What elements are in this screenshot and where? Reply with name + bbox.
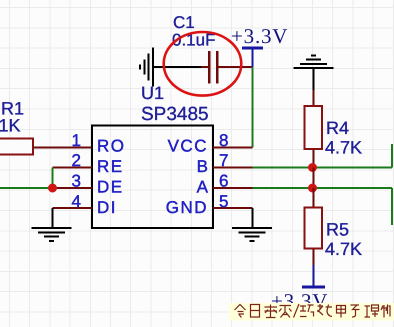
svg-text:6: 6 [219,172,228,191]
wire DI to ground [52,208,54,228]
ground (below pin 5) [232,228,272,241]
wire GND pin to ground [252,208,254,228]
ground (left of C1, pointing left) [140,48,201,87]
svg-text:VCC: VCC [168,137,208,156]
svg-text:2: 2 [72,151,81,170]
pin 2 RE [53,151,124,176]
wire B (green) [253,167,393,169]
svg-text:A: A [197,178,209,197]
watermark strip [229,303,394,321]
svg-text:B: B [197,157,208,176]
pin 7 B [197,151,253,176]
ground (below DI) [32,228,72,241]
svg-text:8: 8 [219,131,228,150]
svg-text:1K: 1K [0,116,21,136]
svg-text:4.7K: 4.7K [325,138,362,158]
junction (B / R4) [308,163,317,172]
wire R1 to pin1 [33,147,92,149]
junction (A / R5) [308,184,317,193]
svg-text:4.7K: 4.7K [325,239,362,259]
svg-text:3: 3 [72,172,81,191]
wire VCC vertical [252,67,254,148]
svg-text:C1: C1 [173,13,195,32]
annotation ellipse around C1 [164,32,242,96]
wire DE input (green) [0,187,53,189]
pin 1 RO [72,131,126,156]
pin 3 DE [53,172,124,197]
capacitor C1 [172,13,253,84]
svg-text:RE: RE [97,157,124,176]
pin 5 GND [166,192,253,217]
watermark text 今日头条/玩转电子硬件 (approximated strokes) [235,304,391,318]
pin 8 VCC [168,131,253,156]
svg-text:R5: R5 [326,220,349,240]
svg-text:U1: U1 [141,83,164,103]
svg-text:DE: DE [97,178,124,197]
svg-text:R4: R4 [326,118,349,138]
wire A (green) [253,187,393,189]
svg-text:RO: RO [97,137,126,156]
IC U1 SP3485 [92,83,213,228]
svg-text:5: 5 [219,192,228,211]
svg-text:+3.3V: +3.3V [231,24,288,48]
resistor R5 [305,188,363,265]
pin 4 DI [53,192,118,217]
resistor R4 [305,90,363,168]
ground (top right, pointing up) [294,55,334,90]
pin 6 A [197,172,253,197]
svg-text:DI: DI [97,198,117,217]
wire RE-DE link (green vertical) [52,168,54,189]
svg-text:7: 7 [219,151,228,170]
wire A right stub down [391,188,393,225]
power label +3.3V (bottom) [271,289,328,313]
junction (RE/DE) [48,184,57,193]
resistor R1 [0,99,33,155]
wire B right stub up [391,144,393,168]
svg-text:GND: GND [166,198,208,217]
wire between junctions [313,168,315,189]
svg-text:SP3485: SP3485 [141,104,209,125]
power +3.3V (bottom) [302,265,325,287]
svg-text:1: 1 [72,131,81,150]
svg-text:4: 4 [72,192,81,211]
power +3.3V (top) [231,24,288,67]
